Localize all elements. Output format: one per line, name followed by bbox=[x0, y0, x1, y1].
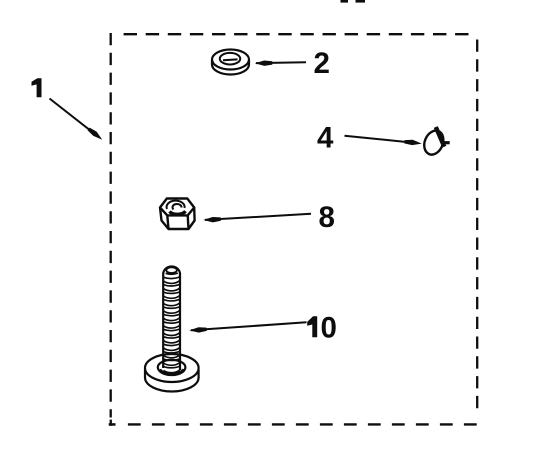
kit boundary dashed box: bottom edge corner stub bbox=[109, 423, 116, 426]
threads on shaft bbox=[163, 273, 180, 375]
clip item 4 bbox=[421, 127, 450, 157]
kit boundary bottom-left corner vertical stub bbox=[110, 420, 112, 426]
svg-text:0: 0 bbox=[321, 311, 337, 344]
kit boundary dashed box: top edge bbox=[124, 33, 471, 35]
leader arrow for item 1 bbox=[50, 99, 105, 142]
leader arrow for item 8 bbox=[203, 214, 311, 223]
washer item 2 bbox=[212, 50, 249, 75]
cropped figure remnant top dash left bbox=[341, 0, 349, 3]
kit boundary dashed box: right edge bbox=[476, 40, 478, 416]
svg-text:4: 4 bbox=[317, 122, 334, 155]
label 1 bbox=[32, 78, 42, 97]
kit boundary dashed box: left edge bbox=[110, 33, 112, 418]
svg-text:8: 8 bbox=[319, 201, 335, 234]
kit boundary dashed box: bottom edge bbox=[128, 423, 477, 425]
leveling leg item 10: threaded shaft bbox=[163, 266, 180, 370]
leader arrow for item 10 bbox=[189, 322, 306, 333]
cropped figure remnant top dash right bbox=[356, 0, 366, 3]
label 10 bbox=[307, 316, 317, 337]
svg-text:2: 2 bbox=[314, 47, 330, 80]
leader arrow for item 4 bbox=[345, 136, 423, 146]
leader arrow for item 2 bbox=[255, 60, 306, 66]
hex nut item 8 bbox=[160, 199, 195, 230]
leveling leg item 10: foot bbox=[145, 354, 199, 392]
